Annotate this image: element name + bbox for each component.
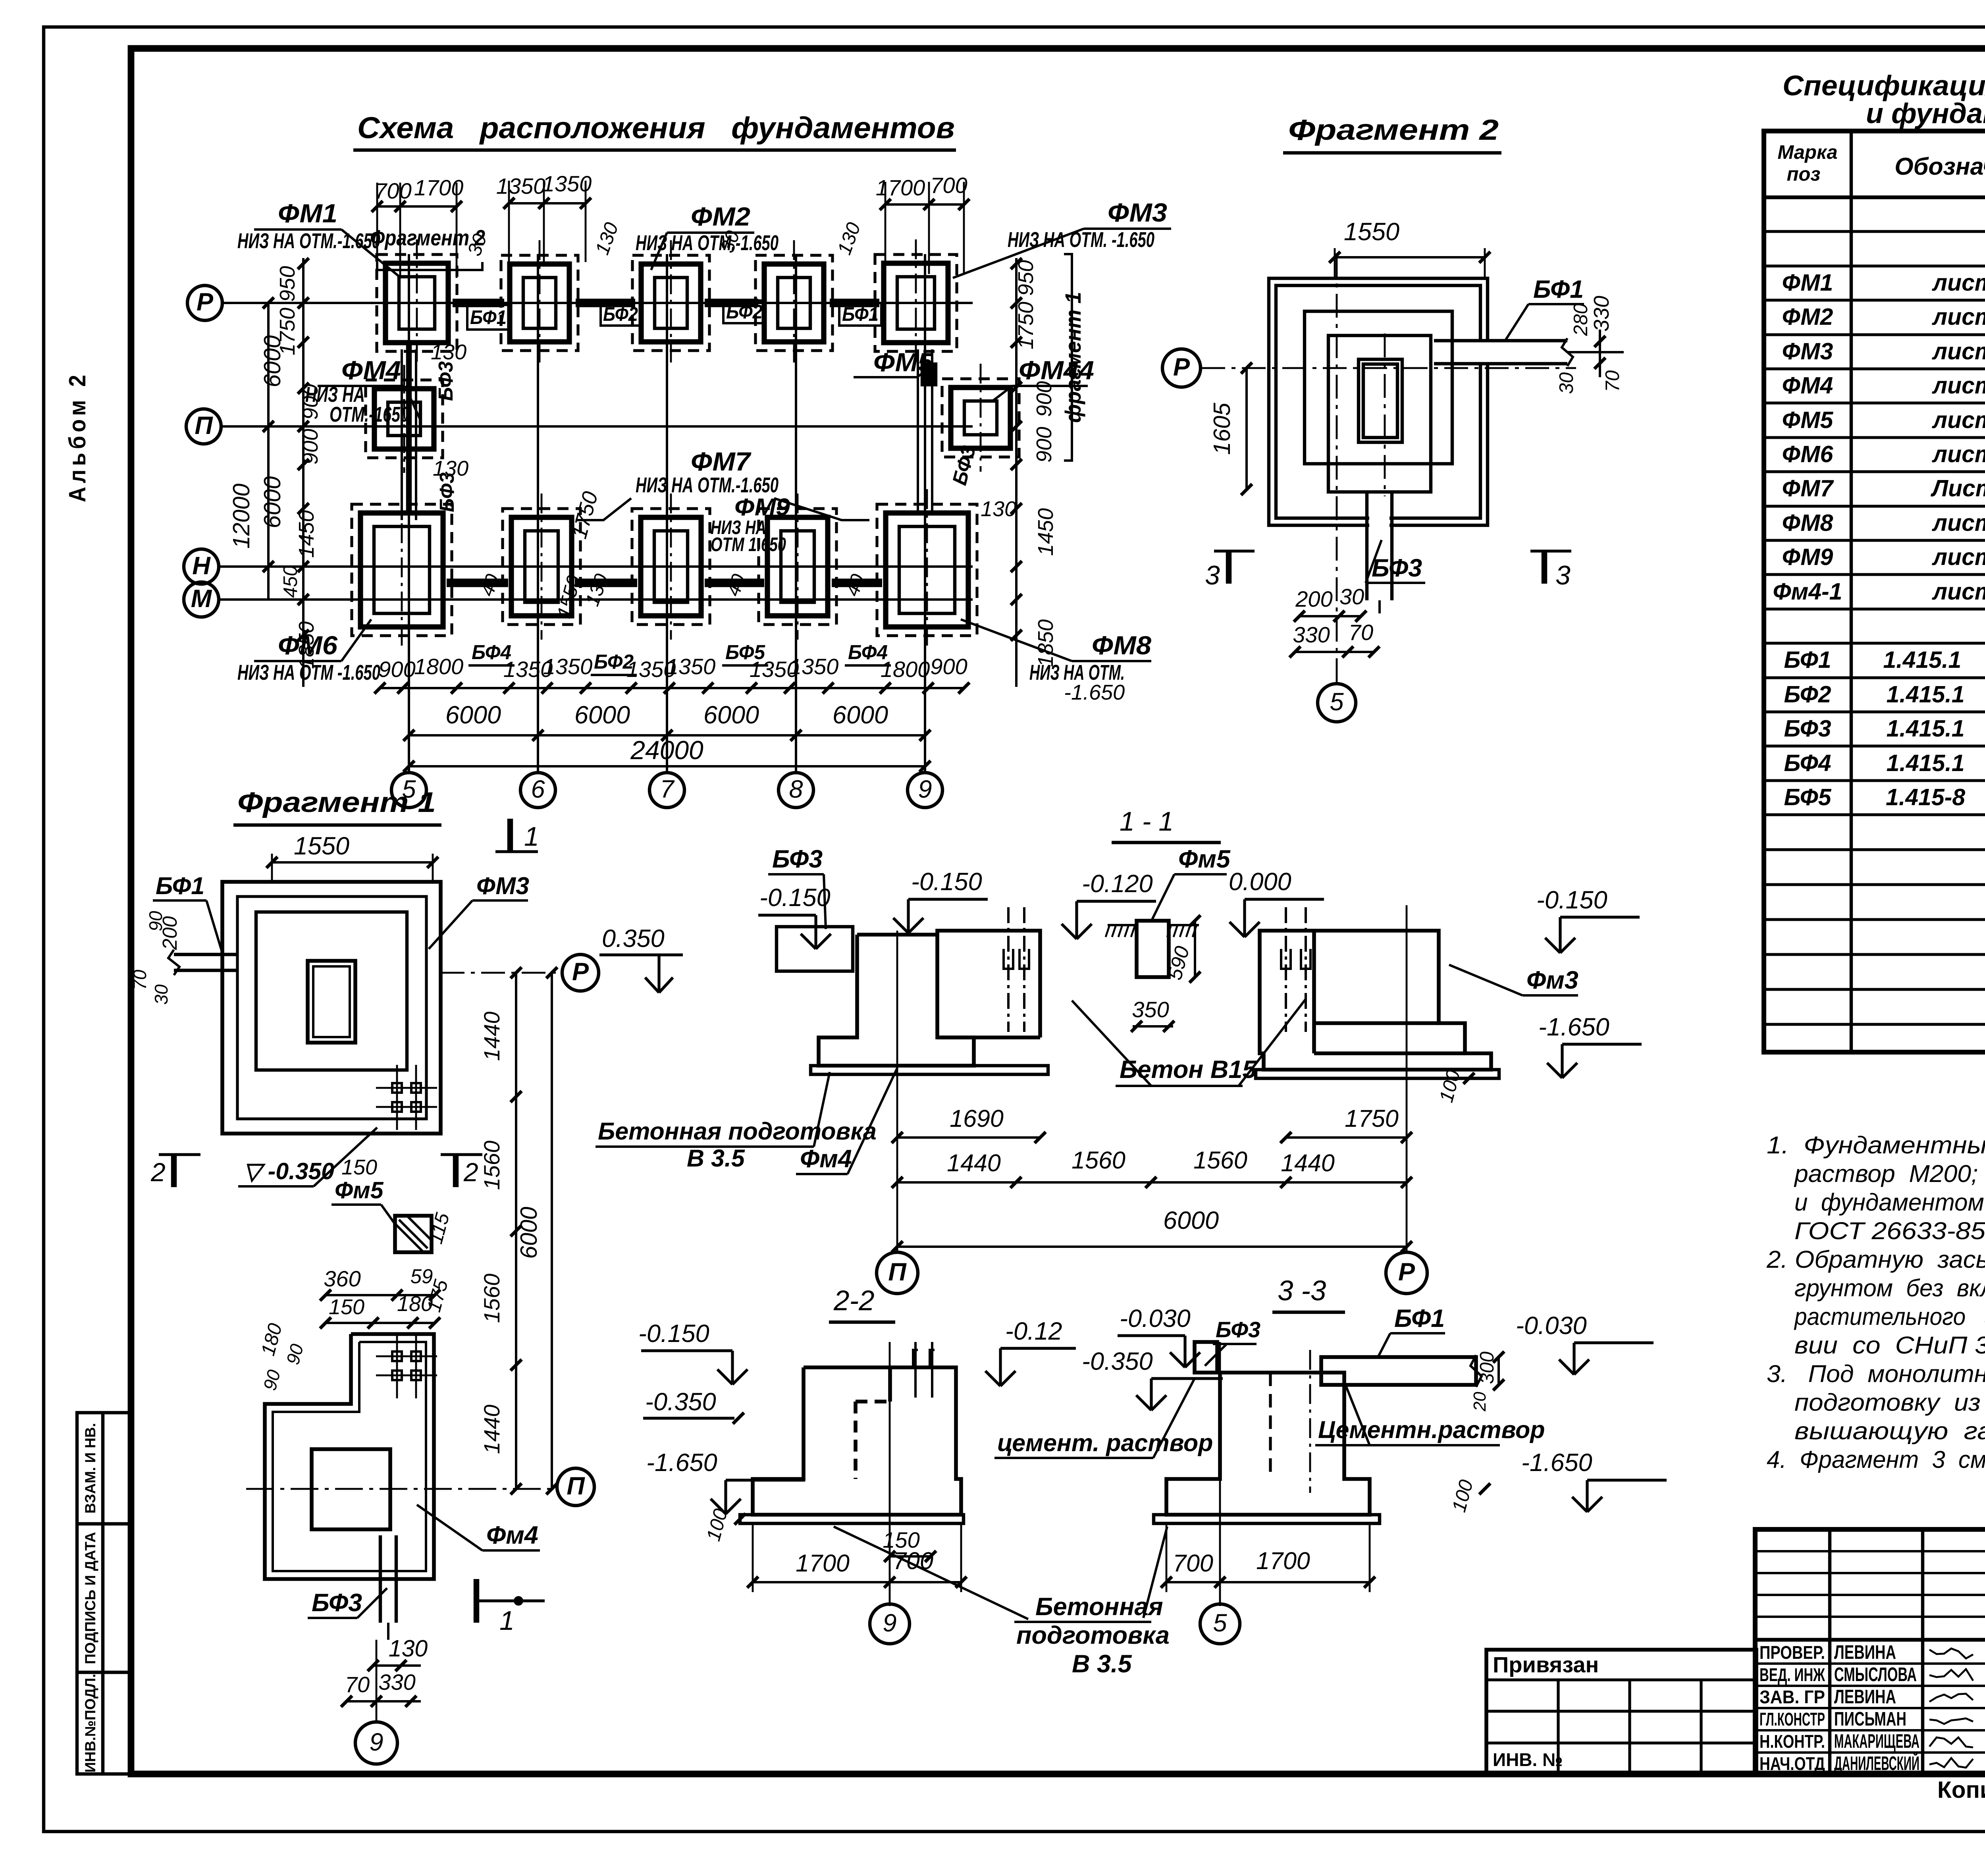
- svg-text:ФМ4: ФМ4: [1782, 372, 1833, 399]
- svg-text:и фундаментных балок: и фундаментных балок: [1866, 98, 1985, 129]
- fragment 2 dim 1605: [1245, 368, 1248, 490]
- svg-text:-0.350: -0.350: [645, 1388, 716, 1416]
- svg-text:900: 900: [930, 654, 967, 679]
- fragment 1 axis circle Pi: [557, 1468, 594, 1506]
- svg-text:4. Фрагмент 3 см. на лист: 4. Фрагмент 3 см. на листе КЖ 6.: [1767, 1446, 1985, 1473]
- svg-text:Альбом 2: Альбом 2: [64, 371, 91, 502]
- svg-text:Р: Р: [1398, 1258, 1415, 1286]
- svg-text:2. Обратную засыпку пазух ф: 2. Обратную засыпку пазух фундаментов пр…: [1766, 1246, 1985, 1273]
- section 3-3 body: [1166, 1373, 1370, 1515]
- axis circle 7: [649, 773, 684, 808]
- section 1-1 left base board: [811, 1066, 1048, 1074]
- svg-text:-0.12: -0.12: [1005, 1317, 1062, 1345]
- svg-text:330: 330: [1293, 622, 1330, 647]
- fragment 1 section mark 1 top: [507, 819, 513, 852]
- fragment 1 upper outer square: [222, 882, 441, 1134]
- svg-text:Фм3: Фм3: [1526, 966, 1578, 994]
- svg-text:1350: 1350: [789, 654, 839, 679]
- svg-text:9: 9: [883, 1609, 896, 1637]
- svg-text:БФ1: БФ1: [842, 304, 879, 325]
- svg-text:12000: 12000: [228, 484, 254, 549]
- svg-text:БФ1: БФ1: [1533, 276, 1584, 303]
- svg-text:950: 950: [1014, 260, 1038, 296]
- svg-text:Фм5: Фм5: [335, 1177, 384, 1203]
- svg-text:ФМ9: ФМ9: [1782, 544, 1833, 570]
- section 1-1 right foundation body: [1260, 931, 1491, 1070]
- section 3-3 beam BF3 small: [1195, 1342, 1217, 1373]
- section 3-3 axis vertical: [1219, 1342, 1221, 1606]
- svg-text:130: 130: [981, 497, 1016, 521]
- svg-text:1440: 1440: [947, 1149, 1001, 1176]
- svg-text:70: 70: [1602, 370, 1623, 392]
- svg-text:1550: 1550: [294, 832, 349, 860]
- left margin stamp boxes: [77, 1413, 131, 1774]
- axis line M: [218, 598, 973, 601]
- svg-text:700: 700: [1173, 1550, 1213, 1577]
- svg-text:20: 20: [1470, 1392, 1490, 1411]
- svg-text:950: 950: [276, 266, 299, 302]
- axis grid vertical: [537, 254, 539, 773]
- svg-text:П: П: [888, 1258, 907, 1286]
- svg-text:и фундаментом заделать бето: и фундаментом заделать бетоном класса В1…: [1794, 1189, 1985, 1216]
- svg-text:ФМ4: ФМ4: [341, 355, 401, 385]
- svg-text:Н.КОНТР.: Н.КОНТР.: [1760, 1731, 1825, 1752]
- svg-text:подготовка: подготовка: [1016, 1621, 1170, 1649]
- fragment 2 axis circle 5: [1318, 684, 1356, 722]
- svg-text:2: 2: [150, 1157, 166, 1187]
- svg-text:150: 150: [341, 1155, 377, 1179]
- foundation FM7 plan a: [503, 509, 580, 625]
- svg-text:лист 6: лист 6: [1931, 544, 1985, 570]
- svg-text:ЗАВ. ГР: ЗАВ. ГР: [1760, 1687, 1825, 1707]
- svg-text:1700: 1700: [876, 175, 925, 200]
- svg-text:6: 6: [531, 775, 545, 803]
- svg-text:ВЕД. ИНЖ: ВЕД. ИНЖ: [1760, 1664, 1825, 1685]
- svg-text:1350: 1350: [496, 174, 546, 199]
- svg-text:Бетон В15: Бетон В15: [1120, 1056, 1257, 1084]
- svg-text:ПИСЬМАН: ПИСЬМАН: [1834, 1708, 1906, 1730]
- fragment 2 axis circle P: [1162, 349, 1201, 387]
- svg-text:6000: 6000: [703, 701, 759, 729]
- foundation FM2 plan b: [632, 255, 709, 351]
- spec table rows: [1764, 230, 1985, 233]
- svg-text:900: 900: [299, 429, 322, 465]
- svg-text:лист 4: лист 4: [1931, 578, 1985, 605]
- svg-text:Фм4: Фм4: [800, 1145, 852, 1173]
- svg-text:СМЫСЛОВА: СМЫСЛОВА: [1834, 1664, 1917, 1685]
- title block outline: [1755, 1529, 1985, 1774]
- fragment 1 upper inner squares: [256, 912, 407, 1070]
- axis line P: [221, 302, 973, 304]
- svg-text:30: 30: [1339, 584, 1364, 609]
- svg-text:НИЗ НА ОТМ.-1.650: НИЗ НА ОТМ.-1.650: [636, 231, 779, 255]
- svg-text:700: 700: [930, 173, 967, 198]
- svg-text:-0.120: -0.120: [1082, 870, 1153, 898]
- svg-text:БФ1: БФ1: [1394, 1305, 1445, 1332]
- svg-text:ФМ5: ФМ5: [1782, 407, 1834, 433]
- section 3-3 base slab: [1154, 1515, 1380, 1523]
- svg-text:90: 90: [145, 911, 166, 931]
- fragment 1 section mark 2 left: [171, 1155, 177, 1187]
- svg-text:6000: 6000: [259, 335, 285, 387]
- fragment 2 beam BF3 down: [1369, 512, 1389, 530]
- foundation FM5 small plan: [922, 364, 936, 385]
- svg-text:1.415.1 Вып.1: 1.415.1 Вып.1: [1887, 750, 1985, 776]
- svg-text:1. Фундаментные балки уклад: 1. Фундаментные балки укладывать на цеме…: [1767, 1132, 1985, 1159]
- svg-text:-0.150: -0.150: [911, 868, 982, 896]
- svg-text:-1.650: -1.650: [1538, 1013, 1609, 1041]
- svg-text:6000: 6000: [833, 701, 888, 729]
- axis grid vertical: [924, 254, 926, 773]
- svg-text:5: 5: [1213, 1609, 1227, 1637]
- svg-text:подготовку из бетона класса: подготовку из бетона класса В 3,5, h=100…: [1794, 1389, 1985, 1416]
- section 3-3 axis circle 5: [1200, 1604, 1240, 1644]
- fragment 2 nested squares: [1269, 278, 1488, 525]
- beam label BF2 box b: [723, 301, 765, 323]
- svg-text:1700: 1700: [1256, 1547, 1310, 1574]
- svg-text:Лист 5: Лист 5: [1930, 475, 1985, 501]
- fragment 1 axis Pi line: [246, 1488, 556, 1490]
- svg-text:130: 130: [433, 457, 468, 480]
- spec table empty rows: [1764, 848, 1985, 851]
- section 2-2 base slab: [740, 1515, 964, 1523]
- svg-text:ФМ2: ФМ2: [1782, 304, 1833, 330]
- svg-text:лист 5: лист 5: [1931, 441, 1985, 467]
- svg-text:1440: 1440: [479, 1405, 504, 1454]
- foundation FM3 plan: [875, 255, 957, 351]
- svg-text:150: 150: [329, 1295, 364, 1319]
- svg-text:-0.030: -0.030: [1120, 1305, 1191, 1332]
- fragment 1 FM5 small square: [395, 1216, 432, 1252]
- svg-text:1750: 1750: [1014, 302, 1038, 349]
- svg-text:70: 70: [1349, 620, 1373, 645]
- svg-text:НИЗ НА ОТМ.-1.650: НИЗ НА ОТМ.-1.650: [237, 229, 380, 253]
- foundation FM2 plan a: [501, 255, 578, 351]
- svg-text:2: 2: [463, 1157, 478, 1187]
- svg-text:350: 350: [1132, 997, 1169, 1022]
- svg-text:900: 900: [1032, 381, 1056, 417]
- axis circle M: [184, 582, 219, 617]
- svg-text:1350: 1350: [542, 171, 592, 196]
- svg-text:Р: Р: [197, 288, 214, 316]
- svg-text:70: 70: [129, 970, 150, 990]
- svg-text:1.415.1 Вып.1: 1.415.1 Вып.1: [1887, 715, 1985, 742]
- svg-text:1.415.1 Вып. 1: 1.415.1 Вып. 1: [1883, 647, 1985, 673]
- svg-text:ИНВ.№ПОДЛ.: ИНВ.№ПОДЛ.: [82, 1674, 98, 1772]
- fragment 1 axis circle P: [562, 954, 599, 991]
- svg-text:Р: Р: [1173, 353, 1190, 381]
- svg-text:900: 900: [299, 384, 322, 420]
- svg-text:БФ2: БФ2: [726, 301, 763, 323]
- title block signature rows: [1755, 1662, 1985, 1665]
- svg-text:1350: 1350: [543, 654, 593, 679]
- section 1-1 axis P vertical: [1406, 905, 1408, 1251]
- bottom dim chain row 1: [380, 687, 964, 689]
- fragment 1 beam BF3 down: [379, 1535, 382, 1623]
- svg-text:1440: 1440: [479, 1012, 504, 1061]
- fragment 2 centerlines: [1336, 253, 1338, 684]
- svg-text:1: 1: [499, 1606, 515, 1636]
- svg-text:БФ4: БФ4: [1784, 750, 1831, 776]
- privyazan small table: [1486, 1650, 1756, 1774]
- right vertical dim chain: [1015, 258, 1018, 687]
- svg-text:Марка: Марка: [1777, 142, 1837, 163]
- svg-text:ВЗАМ. И НВ.: ВЗАМ. И НВ.: [82, 1423, 98, 1514]
- axis circle N: [184, 549, 219, 584]
- vertical beam BF3 right: [917, 349, 919, 512]
- svg-text:360: 360: [324, 1266, 360, 1291]
- svg-text:М: М: [191, 585, 212, 613]
- svg-text:БФ3: БФ3: [1784, 715, 1831, 742]
- svg-text:БФ3: БФ3: [1216, 1317, 1260, 1342]
- svg-text:1560: 1560: [1072, 1147, 1125, 1174]
- svg-text:ЛЕВИНА: ЛЕВИНА: [1834, 1642, 1896, 1663]
- svg-text:Спецификация к схеме расположе: Спецификация к схеме расположения фундам…: [1783, 70, 1985, 102]
- svg-text:лист 3: лист 3: [1931, 338, 1985, 364]
- fragment 1 bolt group upper: [392, 1083, 402, 1093]
- svg-text:1850: 1850: [1034, 619, 1058, 667]
- svg-text:ДАНИЛЕВСКИЙ: ДАНИЛЕВСКИЙ: [1834, 1753, 1919, 1774]
- svg-text:Фрагмент 2: Фрагмент 2: [1288, 114, 1499, 146]
- fragment 1 right dim 6000: [551, 973, 553, 1489]
- svg-text:1700: 1700: [796, 1550, 850, 1577]
- beam stubs on axis N: [447, 578, 508, 587]
- svg-text:1.415-8 Вып.1: 1.415-8 Вып.1: [1886, 784, 1985, 810]
- svg-text:Привязан: Привязан: [1493, 1652, 1599, 1677]
- spec table header row: [1764, 195, 1985, 199]
- svg-text:ФМ3: ФМ3: [1108, 198, 1167, 227]
- svg-text:БФ5: БФ5: [1784, 784, 1831, 810]
- fragment 1 axis P line: [441, 972, 564, 974]
- svg-text:1450: 1450: [1034, 508, 1058, 556]
- svg-text:ПРОВЕР.: ПРОВЕР.: [1760, 1642, 1825, 1663]
- svg-text:-0.150: -0.150: [638, 1320, 709, 1348]
- svg-text:ФМ1: ФМ1: [278, 199, 337, 228]
- svg-text:Цементн.раствор: Цементн.раствор: [1318, 1416, 1545, 1443]
- vertical beam BF3 left: [401, 349, 403, 520]
- svg-text:0.000: 0.000: [1229, 868, 1291, 896]
- beam stubs on axis P: [453, 299, 504, 307]
- svg-text:БФ3: БФ3: [772, 845, 823, 873]
- svg-text:ФМ8: ФМ8: [1092, 630, 1151, 660]
- svg-text:ФМ9: ФМ9: [734, 494, 790, 521]
- svg-text:ЛЕВИНА: ЛЕВИНА: [1834, 1686, 1896, 1708]
- fragment 1 section mark 2 right: [453, 1155, 459, 1187]
- foundation FM1 plan: [377, 255, 457, 351]
- section 1-1 axis circle Pi: [877, 1252, 918, 1294]
- fragment 1 lower foundation outline: [265, 1334, 434, 1579]
- fragment 2 section mark 3 left: [1226, 551, 1231, 584]
- svg-text:Копировал: Коршунова: Копировал: Коршунова: [1937, 1777, 1985, 1803]
- svg-text:1 - 1: 1 - 1: [1120, 806, 1174, 837]
- svg-text:450: 450: [280, 565, 301, 598]
- section 1-1 left beam BF3: [777, 927, 853, 971]
- svg-text:цемент. раствор: цемент. раствор: [997, 1429, 1213, 1456]
- section 1-1 left bolts: [1007, 907, 1010, 1032]
- fragment 2 section mark 3 right: [1542, 551, 1547, 584]
- svg-text:6000: 6000: [259, 476, 285, 528]
- svg-text:лист 4: лист 4: [1931, 407, 1985, 433]
- svg-text:1: 1: [524, 821, 539, 852]
- svg-text:лист 3: лист 3: [1931, 270, 1985, 296]
- axis circle 8: [779, 773, 813, 808]
- svg-text:Бетонная подготовка: Бетонная подготовка: [598, 1118, 877, 1145]
- section 1-1 left foundation body: [819, 931, 1040, 1066]
- svg-text:3: 3: [1205, 560, 1220, 590]
- svg-text:0.350: 0.350: [602, 925, 665, 952]
- svg-text:ФМ3: ФМ3: [1782, 338, 1833, 364]
- svg-text:ОТМ 1.650: ОТМ 1.650: [711, 534, 786, 555]
- svg-text:лист 3: лист 3: [1931, 304, 1985, 330]
- svg-text:1605: 1605: [1209, 403, 1235, 455]
- left vertical dim chain outer: [267, 303, 270, 600]
- svg-text:поз: поз: [1787, 164, 1821, 185]
- foundation FM9 plan: [759, 509, 836, 625]
- svg-text:-0.150: -0.150: [1536, 886, 1607, 914]
- svg-text:-0.030: -0.030: [1516, 1312, 1587, 1340]
- svg-text:-0.150: -0.150: [759, 884, 831, 912]
- svg-text:БФ3: БФ3: [434, 361, 457, 401]
- svg-text:9: 9: [918, 775, 932, 803]
- svg-text:24000: 24000: [630, 735, 703, 765]
- svg-text:БФ1: БФ1: [156, 872, 204, 899]
- svg-text:280: 280: [1570, 303, 1592, 336]
- svg-text:БФ1: БФ1: [470, 307, 507, 328]
- foundation FM4 plan: [366, 380, 443, 458]
- svg-text:900: 900: [378, 657, 415, 682]
- svg-text:6000: 6000: [574, 701, 630, 729]
- svg-text:БФ1: БФ1: [1784, 647, 1831, 673]
- svg-text:НИЗ НА ОТМ. -1.650: НИЗ НА ОТМ. -1.650: [1008, 228, 1154, 252]
- svg-text:300: 300: [1476, 1352, 1498, 1384]
- axis line N: [219, 565, 973, 568]
- svg-text:3 -3: 3 -3: [1278, 1275, 1326, 1307]
- svg-text:Р: Р: [572, 958, 589, 986]
- svg-text:П: П: [567, 1472, 585, 1500]
- svg-text:-1.650: -1.650: [1521, 1449, 1592, 1477]
- svg-text:Фм4-1: Фм4-1: [1773, 578, 1842, 605]
- axis circle 5: [391, 773, 426, 808]
- axis circle 6: [520, 773, 555, 808]
- axis circle Pi: [186, 409, 221, 444]
- section 1-1 right bolts: [1285, 907, 1287, 1032]
- svg-text:1800: 1800: [881, 657, 930, 682]
- svg-text:Фрагмент 1: Фрагмент 1: [237, 787, 436, 818]
- foundation FM4-1 plan: [942, 379, 1019, 457]
- title block upper small rows: [1755, 1550, 1985, 1552]
- svg-text:ФМ3: ФМ3: [476, 872, 529, 899]
- svg-text:1450: 1450: [295, 510, 318, 558]
- svg-text:вии со СНиП 3.02.01- 87.: вии со СНиП 3.02.01- 87.: [1794, 1332, 1985, 1359]
- svg-text:6000: 6000: [1163, 1207, 1219, 1234]
- svg-text:лист 5: лист 5: [1931, 510, 1985, 536]
- svg-text:ИНВ. №: ИНВ. №: [1493, 1749, 1563, 1770]
- section 1-1 axis Pi vertical: [896, 931, 898, 1251]
- svg-text:раствор М200; h=20мм, зазор: раствор М200; h=20мм, зазоры между торца…: [1794, 1160, 1985, 1187]
- svg-text:30: 30: [1556, 372, 1577, 394]
- svg-text:70: 70: [345, 1672, 370, 1697]
- section 1-1 FM5 pit: [1137, 921, 1169, 977]
- bottom dim chain row 2 6000s: [409, 734, 925, 737]
- svg-text:1350: 1350: [666, 654, 716, 679]
- svg-text:1560: 1560: [479, 1274, 504, 1323]
- svg-text:лист 4: лист 4: [1931, 372, 1985, 399]
- section 1-1 right base board: [1256, 1070, 1499, 1078]
- section 3-3 centerline: [1309, 1350, 1311, 1493]
- section 2-2 axis circle 9: [870, 1604, 910, 1644]
- svg-text:2-2: 2-2: [833, 1285, 875, 1317]
- spec table outline: [1764, 131, 1985, 1052]
- svg-text:ГОСТ 26633-85.: ГОСТ 26633-85.: [1794, 1217, 1985, 1244]
- section 2-2 bolts: [913, 1350, 918, 1367]
- svg-text:П: П: [195, 412, 213, 440]
- bottom dim 24000: [409, 765, 925, 767]
- svg-text:900: 900: [1032, 427, 1056, 463]
- fragment 1 section mark 1 bottom: [474, 1579, 479, 1623]
- svg-text:200: 200: [1295, 586, 1332, 611]
- svg-text:Фм5: Фм5: [1178, 845, 1231, 873]
- fragment 1 axis circle 9: [355, 1722, 397, 1764]
- fragment 1 lower bolt group: [392, 1352, 402, 1361]
- svg-text:Обозначение: Обозначение: [1894, 153, 1985, 180]
- fragment 1 lower inner square: [312, 1449, 390, 1529]
- svg-text:МАКАРИЩЕВА: МАКАРИЩЕВА: [1834, 1731, 1919, 1752]
- svg-text:грунтом без включения стро: грунтом без включения строительного мусо…: [1794, 1274, 1985, 1301]
- svg-text:6000: 6000: [516, 1207, 542, 1259]
- svg-text:1550: 1550: [1344, 218, 1399, 246]
- svg-text:5: 5: [1330, 688, 1344, 716]
- svg-text:1690: 1690: [950, 1105, 1004, 1132]
- svg-text:1850: 1850: [295, 621, 318, 669]
- svg-text:вышающую габариты фундамента: вышающую габариты фундамента на 100мм.: [1794, 1417, 1985, 1444]
- foundation FM2 plan c: [755, 255, 833, 351]
- svg-text:-1.650: -1.650: [646, 1449, 717, 1477]
- section 2-2 axis vertical: [889, 1342, 891, 1606]
- axis circle P: [187, 285, 222, 320]
- svg-text:1560: 1560: [479, 1141, 504, 1190]
- svg-text:Н: Н: [192, 552, 211, 580]
- svg-text:ФМ6: ФМ6: [1782, 441, 1834, 467]
- axis line Pi: [220, 425, 973, 428]
- svg-text:1750: 1750: [1345, 1105, 1399, 1132]
- svg-text:БФ3: БФ3: [312, 1589, 362, 1617]
- svg-text:ФМ8: ФМ8: [1782, 510, 1833, 536]
- svg-text:130: 130: [431, 340, 466, 364]
- svg-text:БФ3: БФ3: [1372, 554, 1422, 582]
- fragment 1 right vertical dim chain: [515, 973, 517, 1489]
- svg-text:ГЛ.КОНСТР: ГЛ.КОНСТР: [1760, 1709, 1825, 1729]
- axis grid vertical: [795, 254, 797, 773]
- beam label BF1 box b: [839, 303, 881, 326]
- beam label BF2 box: [601, 303, 640, 326]
- svg-text:ФМ1: ФМ1: [1782, 270, 1833, 296]
- svg-text:Фм4: Фм4: [486, 1521, 538, 1549]
- svg-text:1800: 1800: [414, 654, 464, 679]
- axis circle 9: [908, 773, 942, 808]
- foundation FM7 plan b: [632, 509, 710, 625]
- svg-text:330: 330: [378, 1670, 415, 1695]
- svg-text:3: 3: [1555, 560, 1571, 590]
- svg-text:8: 8: [789, 775, 803, 803]
- svg-text:Схема расположения фундаме: Схема расположения фундаментов: [357, 111, 955, 145]
- foundation FM8 plan: [877, 504, 977, 636]
- axis grid vertical: [666, 254, 668, 773]
- svg-text:1.415.1 Вып.1: 1.415.1 Вып.1: [1887, 681, 1985, 708]
- svg-text:3. Под монолитными фундаме: 3. Под монолитными фундаментами Выполнит…: [1767, 1360, 1985, 1387]
- fragment 2 beam BF1: [1465, 342, 1493, 362]
- svg-text:ФМ7: ФМ7: [1782, 475, 1835, 501]
- svg-text:БФ2: БФ2: [603, 304, 638, 325]
